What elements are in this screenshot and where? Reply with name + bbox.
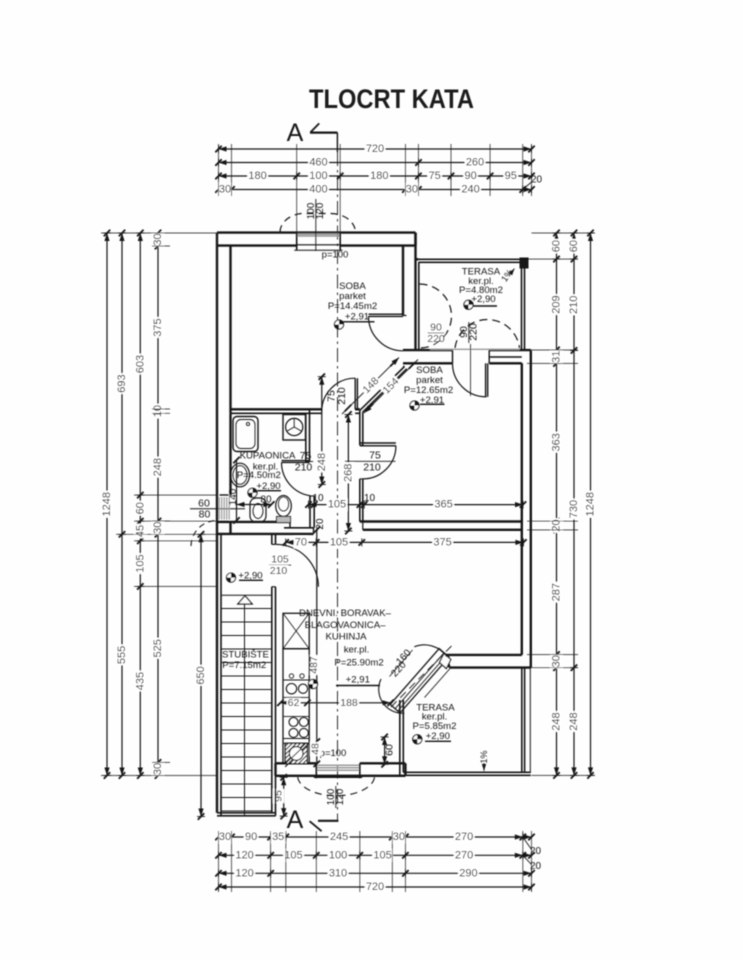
svg-text:95: 95 <box>273 790 285 802</box>
svg-text:10: 10 <box>364 493 376 504</box>
svg-text:70: 70 <box>295 536 307 548</box>
svg-text:209: 209 <box>551 295 563 313</box>
svg-text:1248: 1248 <box>585 492 597 516</box>
svg-text:180: 180 <box>248 170 266 182</box>
svg-text:120: 120 <box>335 788 346 805</box>
svg-text:100: 100 <box>329 849 347 861</box>
svg-text:STUBIŠTE: STUBIŠTE <box>222 649 269 660</box>
svg-text:30: 30 <box>393 831 405 843</box>
svg-text:A: A <box>287 119 304 147</box>
svg-text:120: 120 <box>235 867 253 879</box>
svg-text:210: 210 <box>568 296 580 314</box>
svg-text:TLOCRT KATA: TLOCRT KATA <box>309 85 474 115</box>
svg-text:30: 30 <box>152 233 164 245</box>
svg-text:730: 730 <box>568 500 580 518</box>
svg-text:48: 48 <box>310 743 322 755</box>
svg-text:90: 90 <box>464 170 476 182</box>
svg-text:210: 210 <box>295 462 313 474</box>
svg-text:210: 210 <box>363 462 381 474</box>
svg-text:260: 260 <box>466 157 484 169</box>
svg-text:p=100: p=100 <box>322 250 349 261</box>
svg-text:35: 35 <box>272 831 284 843</box>
svg-text:1%: 1% <box>479 750 489 763</box>
svg-text:105: 105 <box>330 536 348 548</box>
svg-text:365: 365 <box>434 499 452 511</box>
svg-text:375: 375 <box>433 536 451 548</box>
svg-text:95: 95 <box>505 170 517 182</box>
svg-text:180: 180 <box>370 170 388 182</box>
svg-text:188: 188 <box>340 697 358 709</box>
svg-text:P=7.15m2: P=7.15m2 <box>222 660 266 671</box>
svg-text:90: 90 <box>245 831 257 843</box>
svg-text:+2,90: +2,90 <box>471 294 495 305</box>
svg-text:210: 210 <box>336 387 348 405</box>
svg-text:248: 248 <box>152 458 164 476</box>
svg-text:720: 720 <box>366 881 384 893</box>
svg-text:60: 60 <box>134 502 146 514</box>
svg-text:30: 30 <box>551 655 563 667</box>
svg-text:248: 248 <box>568 712 580 730</box>
svg-text:105: 105 <box>328 499 346 511</box>
svg-text:1248: 1248 <box>101 492 113 516</box>
svg-text:720: 720 <box>366 143 384 155</box>
svg-text:10: 10 <box>152 405 164 417</box>
svg-text:210: 210 <box>270 565 288 577</box>
svg-text:P=25.90m2: P=25.90m2 <box>334 658 383 669</box>
svg-text:375: 375 <box>152 318 164 336</box>
svg-text:105: 105 <box>373 849 391 861</box>
svg-text:290: 290 <box>459 867 477 879</box>
svg-text:30: 30 <box>152 522 164 534</box>
svg-text:310: 310 <box>329 867 347 879</box>
svg-text:100: 100 <box>309 170 327 182</box>
svg-text:80: 80 <box>199 509 211 521</box>
svg-text:60: 60 <box>384 744 396 756</box>
svg-text:30: 30 <box>219 184 231 196</box>
svg-text:270: 270 <box>455 831 473 843</box>
svg-text:248: 248 <box>316 453 328 471</box>
svg-text:435: 435 <box>134 672 146 690</box>
svg-text:P=4.50m2: P=4.50m2 <box>237 470 281 481</box>
svg-text:105: 105 <box>134 554 146 572</box>
svg-text:30: 30 <box>406 184 418 196</box>
svg-text:120: 120 <box>315 202 326 219</box>
svg-text:+2,90: +2,90 <box>426 731 450 742</box>
svg-text:270: 270 <box>455 849 473 861</box>
svg-text:62: 62 <box>288 697 300 709</box>
svg-text:75: 75 <box>369 450 381 462</box>
svg-text:105: 105 <box>284 849 302 861</box>
svg-text:140: 140 <box>228 488 239 505</box>
svg-text:31: 31 <box>551 351 563 363</box>
svg-text:603: 603 <box>134 355 146 373</box>
svg-text:P=14.45m2: P=14.45m2 <box>328 301 377 312</box>
svg-text:A: A <box>287 806 304 834</box>
svg-text:693: 693 <box>116 374 128 392</box>
svg-text:650: 650 <box>195 666 207 684</box>
svg-text:10: 10 <box>312 493 324 504</box>
svg-text:268: 268 <box>342 464 354 482</box>
svg-text:+2,91: +2,91 <box>346 674 370 685</box>
svg-text:45: 45 <box>134 525 146 537</box>
svg-text:400: 400 <box>309 184 327 196</box>
svg-text:BLAGOVAONICA–: BLAGOVAONICA– <box>305 620 387 631</box>
svg-text:KUPAONICA: KUPAONICA <box>240 451 296 462</box>
svg-text:60: 60 <box>551 240 563 252</box>
svg-text:287: 287 <box>551 583 563 601</box>
svg-text:240: 240 <box>461 184 479 196</box>
svg-text:20: 20 <box>531 175 543 186</box>
svg-text:p=100: p=100 <box>320 748 347 759</box>
svg-text:120: 120 <box>235 849 253 861</box>
svg-text:30: 30 <box>152 763 164 775</box>
svg-text:220: 220 <box>468 323 480 341</box>
svg-text:525: 525 <box>152 639 164 657</box>
svg-text:363: 363 <box>551 433 563 451</box>
svg-text:DNEVNI. BORAVAK–: DNEVNI. BORAVAK– <box>299 608 392 619</box>
svg-text:75: 75 <box>300 450 312 462</box>
svg-text:ker.pl.: ker.pl. <box>344 644 370 655</box>
svg-text:90: 90 <box>430 322 442 334</box>
svg-text:30: 30 <box>219 831 231 843</box>
svg-text:460: 460 <box>309 157 327 169</box>
svg-text:75: 75 <box>429 170 441 182</box>
svg-text:105: 105 <box>271 553 289 565</box>
svg-text:555: 555 <box>116 646 128 664</box>
svg-text:60: 60 <box>568 240 580 252</box>
svg-text:248: 248 <box>551 712 563 730</box>
svg-text:+2,91: +2,91 <box>345 312 369 323</box>
svg-text:KUHINJA: KUHINJA <box>325 632 367 643</box>
svg-text:245: 245 <box>330 831 348 843</box>
svg-text:20: 20 <box>315 518 326 530</box>
